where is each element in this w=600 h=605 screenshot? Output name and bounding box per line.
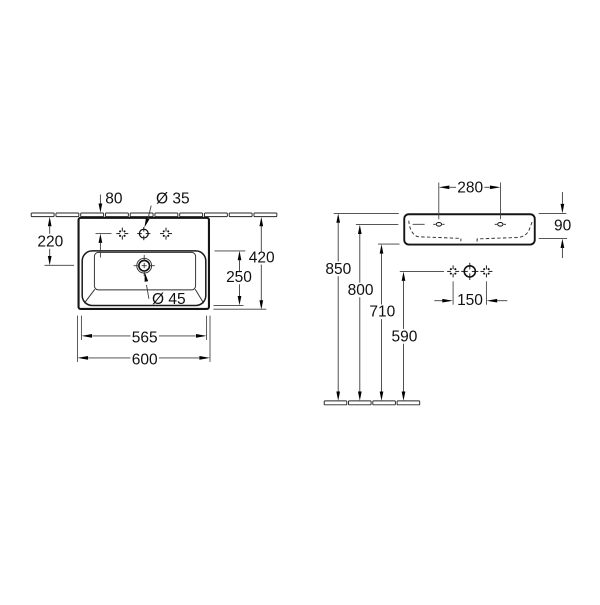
tap hole circle middle [137, 227, 150, 240]
basin corner diagonal right [195, 289, 204, 303]
svg-text:Ø 45: Ø 45 [152, 291, 186, 308]
extension line for 590 [400, 270, 444, 272]
dimension 710 [369, 244, 395, 400]
basin floor rounded rect [94, 252, 195, 290]
svg-text:280: 280 [457, 180, 483, 197]
svg-text:90: 90 [554, 218, 572, 235]
wall tile strip [31, 213, 277, 217]
svg-text:590: 590 [391, 328, 417, 345]
extension lines for tall dimensions [334, 213, 400, 244]
dimension 590 [391, 272, 417, 401]
bottom extension lines [78, 316, 211, 362]
svg-text:220: 220 [37, 234, 63, 251]
dimension 220 [37, 217, 74, 265]
extension lines right of basin [213, 251, 266, 309]
svg-text:420: 420 [249, 250, 275, 267]
floor tile strip [324, 401, 420, 405]
tap hole cross right [160, 228, 172, 240]
dimension 80 [96, 190, 123, 257]
svg-text:150: 150 [457, 292, 483, 309]
basin rim rounded rect [82, 251, 206, 306]
svg-text:565: 565 [132, 329, 158, 346]
dimension 600 [78, 351, 211, 368]
svg-text:80: 80 [105, 190, 123, 207]
dimension 800 [348, 225, 374, 401]
svg-text:Ø 35: Ø 35 [156, 190, 190, 207]
hidden interior dashed contour left [409, 221, 461, 242]
tap slot left [433, 223, 444, 227]
svg-text:850: 850 [325, 261, 351, 278]
tap hole cross left front [447, 265, 459, 277]
svg-text:250: 250 [226, 269, 252, 286]
dimension 280 [439, 180, 501, 220]
svg-text:710: 710 [369, 304, 395, 321]
tap hole cross right front [480, 265, 492, 277]
dimension 850 [325, 214, 351, 401]
dimension 565 [81, 329, 206, 346]
label O45 with leader [145, 272, 186, 308]
drain hole inner circle [139, 260, 150, 271]
drain hole outer circle [137, 258, 152, 273]
tap hole circle middle front [461, 263, 478, 280]
hidden interior dashed contour right [477, 222, 532, 242]
drain crosshair [134, 255, 155, 276]
dimension 150 [434, 281, 507, 309]
basin corner diagonal left [84, 289, 95, 303]
basin outer rect [79, 218, 209, 309]
basin front body [404, 214, 535, 244]
dimension 250 [226, 251, 252, 305]
dimension 420 [249, 217, 275, 310]
tap hole cross left [116, 228, 128, 240]
centerline segment [413, 223, 425, 225]
svg-text:600: 600 [132, 351, 158, 368]
svg-text:800: 800 [348, 282, 374, 299]
tap slot right [495, 223, 506, 227]
dimension 90 [539, 192, 572, 258]
label O35 with leader [144, 190, 189, 227]
